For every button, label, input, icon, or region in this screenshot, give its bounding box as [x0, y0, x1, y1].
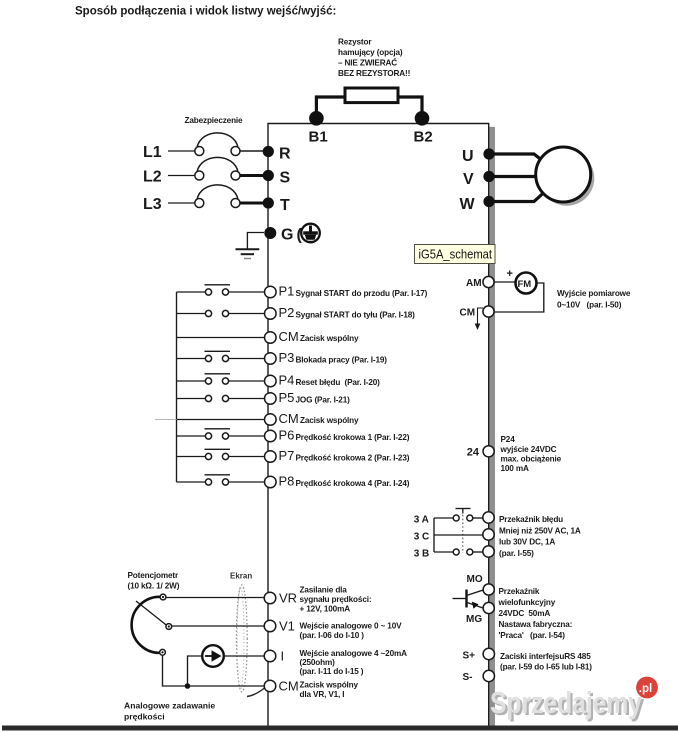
svg-text:R: R [279, 146, 291, 163]
ground wire [247, 233, 264, 250]
arrow common [478, 308, 484, 324]
wire F3 to T (thick) [240, 202, 264, 205]
wire F1 to R [240, 150, 264, 152]
svg-text:Sprzedajemy: Sprzedajemy [490, 686, 642, 720]
input P7 [177, 448, 410, 463]
svg-text:MG: MG [466, 614, 482, 625]
relay fault contacts [414, 509, 581, 560]
svg-text:max. obciążenie: max. obciążenie [501, 455, 562, 464]
svg-text:AM: AM [466, 278, 482, 289]
node B2 [415, 111, 430, 126]
inverter box right shadow bar [489, 127, 495, 726]
svg-text:Prędkość krokowa 1 (Par. I-22): Prędkość krokowa 1 (Par. I-22) [296, 433, 410, 442]
svg-text:BEZ REZYSTORA!!: BEZ REZYSTORA!! [338, 69, 410, 78]
fuse F3 [195, 199, 204, 208]
wire 3C [434, 534, 483, 536]
svg-text:– NIE ZWIERAĆ: – NIE ZWIERAĆ [338, 57, 397, 68]
svg-text:Zasilanie dla: Zasilanie dla [300, 586, 348, 595]
wire I left branch [188, 656, 203, 686]
svg-text:U: U [462, 148, 474, 165]
svg-text:P6: P6 [279, 428, 295, 443]
contact 3A [453, 515, 459, 521]
wire pot bottom to CM [163, 655, 265, 686]
svg-text:P5: P5 [279, 390, 295, 405]
terminal V [483, 171, 494, 182]
protective earth icon [301, 224, 320, 243]
svg-text:+: + [507, 268, 513, 280]
terminal T [263, 197, 274, 208]
svg-text:Zacisk wspólny: Zacisk wspólny [300, 334, 359, 343]
svg-text:.pl: .pl [639, 683, 652, 695]
contact actuator mark [456, 508, 471, 510]
terminal MG [483, 602, 494, 613]
shield ellipse [236, 585, 247, 692]
svg-text:CM: CM [279, 329, 299, 344]
svg-text:Nastawa fabryczna:: Nastawa fabryczna: [499, 620, 573, 629]
svg-text:3 C: 3 C [414, 532, 430, 543]
wire 3B [434, 551, 453, 553]
svg-text:S-: S- [463, 672, 473, 683]
wire V [489, 175, 537, 178]
wire L3 [168, 202, 195, 204]
motor M [536, 147, 591, 202]
terminal I [264, 650, 276, 662]
terminal U [483, 148, 494, 159]
terminal W [483, 196, 494, 207]
svg-text:Zacisk wspólny: Zacisk wspólny [300, 416, 359, 425]
input P5 [177, 390, 351, 405]
svg-text:L3: L3 [143, 196, 162, 213]
svg-text:Przekaźnik: Przekaźnik [499, 587, 540, 596]
input P3 [177, 350, 388, 365]
svg-text:Prędkość krokowa 2 (Par. I-23): Prędkość krokowa 2 (Par. I-23) [296, 454, 410, 463]
wire I right [224, 655, 264, 657]
svg-text:0~10V (par. I-50): 0~10V (par. I-50) [557, 301, 622, 310]
svg-text:Przekaźnik błędu: Przekaźnik błędu [499, 515, 563, 524]
svg-text:T: T [280, 197, 290, 214]
svg-text:Ekran: Ekran [230, 572, 252, 581]
svg-text:prędkości: prędkości [124, 712, 165, 722]
pot terminal mid [166, 624, 172, 630]
svg-text:3 A: 3 A [414, 515, 429, 526]
svg-text:B2: B2 [414, 129, 433, 146]
svg-text:(par. I-06 do I-10 ): (par. I-06 do I-10 ) [300, 631, 365, 640]
digital input bus [176, 292, 178, 482]
svg-text:dla VR, V1, I: dla VR, V1, I [300, 690, 345, 699]
contact 3B [453, 549, 459, 555]
svg-text:(250ohm): (250ohm) [300, 658, 336, 667]
wire V1 [172, 625, 265, 627]
svg-text:W: W [460, 196, 476, 213]
svg-text:Rezystor: Rezystor [338, 38, 372, 47]
terminal CM analog [264, 680, 276, 692]
current source [202, 645, 224, 667]
svg-text:P7: P7 [279, 448, 295, 463]
svg-text:Zaciski interfejsuRS 485: Zaciski interfejsuRS 485 [500, 652, 591, 661]
terminal 3C [483, 529, 494, 540]
input P4 [177, 373, 381, 388]
svg-text:Analogowe zadawanie: Analogowe zadawanie [124, 701, 215, 711]
watermark Sprzedajemy [490, 677, 658, 722]
svg-text:Blokada pracy (Par. I-19): Blokada pracy (Par. I-19) [296, 356, 388, 365]
terminal 3B [483, 546, 494, 557]
svg-text:hamujący (opcja): hamujący (opcja) [338, 48, 403, 57]
wire L2 [168, 175, 195, 177]
pot terminal top [160, 594, 166, 600]
svg-text:L2: L2 [143, 169, 162, 186]
wire B1 stub [316, 97, 345, 118]
svg-text:P2: P2 [279, 305, 295, 320]
transistor MO output [453, 574, 573, 640]
terminal S [263, 170, 274, 181]
svg-text:Zabezpieczenie: Zabezpieczenie [185, 116, 244, 125]
wire relay left bus [433, 518, 435, 552]
svg-text:(par. I-55): (par. I-55) [499, 549, 534, 558]
terminal S+ [463, 648, 593, 683]
wire U [489, 154, 540, 159]
svg-text:Reset błędu (Par. I-20): Reset błędu (Par. I-20) [296, 378, 381, 387]
svg-text:iG5A_schemat: iG5A_schemat [419, 248, 493, 262]
terminal VR [264, 592, 276, 604]
svg-text:P8: P8 [279, 474, 295, 489]
input P8 [177, 474, 410, 489]
svg-text:CM: CM [279, 411, 299, 426]
motor M shadow [539, 151, 594, 206]
terminal R [263, 146, 274, 157]
svg-text:Wejście analogowe 0 ~ 10V: Wejście analogowe 0 ~ 10V [300, 622, 403, 631]
junction [185, 683, 191, 689]
svg-text:P4: P4 [279, 373, 295, 388]
terminal CM common 2 [155, 411, 359, 426]
terminal CM common 1 [177, 329, 360, 344]
ground [236, 248, 260, 250]
svg-text:'Praca' (par. I-54): 'Praca' (par. I-54) [499, 631, 566, 640]
svg-text:V: V [463, 171, 474, 188]
node B1 [309, 111, 324, 126]
terminal MO [483, 584, 494, 595]
transistor Q1 [465, 590, 467, 608]
svg-text:VR: VR [279, 591, 297, 606]
svg-text:CM: CM [279, 679, 299, 694]
fuse F2 [195, 171, 204, 180]
svg-text:Zacisk wspólny: Zacisk wspólny [300, 681, 359, 690]
svg-text:Wyjście pomiarowe: Wyjście pomiarowe [557, 289, 631, 298]
potentiometer VR1 [132, 594, 172, 655]
svg-text:S: S [280, 170, 291, 187]
inverter box outline [268, 124, 489, 727]
svg-text:FM: FM [518, 279, 532, 290]
resistor (braking) [345, 88, 398, 103]
relay dotted link [462, 511, 464, 553]
wire 3A [434, 517, 453, 519]
input P6 [177, 428, 410, 443]
svg-text:V1: V1 [279, 619, 295, 634]
pot terminal bottom [160, 649, 166, 655]
wire VR [166, 597, 265, 599]
terminal V1 [264, 620, 276, 632]
bottom dark bar [2, 726, 678, 731]
svg-text:G: G [281, 227, 293, 244]
svg-text:S+: S+ [463, 651, 476, 662]
svg-text:+ 12V, 100mA: + 12V, 100mA [300, 605, 351, 614]
terminal G [264, 227, 276, 239]
wire AM to FM [494, 281, 516, 283]
svg-text:(par. I-11 do I-15 ): (par. I-11 do I-15 ) [300, 667, 364, 676]
input P1 [177, 284, 428, 299]
pot wiper [136, 601, 168, 626]
svg-text:(10 kΩ. 1/ 2W): (10 kΩ. 1/ 2W) [128, 582, 180, 591]
svg-text:Mniej niż 250V AC, 1A: Mniej niż 250V AC, 1A [499, 526, 581, 535]
svg-text:I: I [281, 649, 285, 664]
svg-text:CM: CM [460, 308, 476, 319]
svg-text:3 B: 3 B [414, 549, 430, 560]
svg-text:lub 30V DC, 1A: lub 30V DC, 1A [499, 538, 555, 547]
svg-text:Sygnał START do przodu (Par. I: Sygnał START do przodu (Par. I-17) [296, 289, 428, 298]
svg-text:Sygnał START do tyłu (Par. I-1: Sygnał START do tyłu (Par. I-18) [296, 311, 416, 320]
svg-text:Wejście analogowe 4 ~20mA: Wejście analogowe 4 ~20mA [300, 649, 408, 658]
svg-text:JOG (Par. I-21): JOG (Par. I-21) [296, 396, 351, 405]
svg-text:Prędkość krokowa 4 (Par. I-24): Prędkość krokowa 4 (Par. I-24) [296, 479, 410, 488]
svg-text:P1: P1 [279, 284, 295, 299]
shield drain to CM [247, 688, 265, 697]
svg-text:wyjście 24VDC: wyjście 24VDC [500, 445, 557, 454]
wire W [489, 193, 543, 201]
svg-text:Potencjometr: Potencjometr [128, 571, 179, 580]
svg-text:B1: B1 [309, 129, 328, 146]
svg-text:P3: P3 [279, 350, 295, 365]
tooltip iG5A_schemat [415, 245, 496, 264]
svg-text:wielofunkcyjny: wielofunkcyjny [498, 598, 556, 607]
wire L1 [168, 150, 195, 152]
meter FM [516, 273, 537, 294]
svg-text:100 mA: 100 mA [501, 464, 529, 473]
svg-text:24: 24 [467, 446, 480, 458]
svg-text:L1: L1 [143, 144, 162, 161]
svg-text:(par. I-59 do I-65 lub I-81): (par. I-59 do I-65 lub I-81) [500, 663, 592, 672]
svg-text:sygnału prędkości:: sygnału prędkości: [300, 595, 372, 604]
svg-text:Sposób podłączenia i widok lis: Sposób podłączenia i widok listwy wejść/… [75, 6, 336, 18]
wire B2 stub [398, 97, 422, 118]
terminal 3A [483, 512, 494, 523]
svg-text:24VDC 50mA: 24VDC 50mA [499, 609, 551, 618]
wire F2 to S (thick) [240, 174, 264, 177]
svg-text:P24: P24 [501, 435, 516, 444]
svg-text:MO: MO [467, 574, 483, 585]
input P2 [177, 305, 416, 320]
fuse F1 [195, 147, 204, 156]
wire FM loop to CM [494, 283, 544, 312]
